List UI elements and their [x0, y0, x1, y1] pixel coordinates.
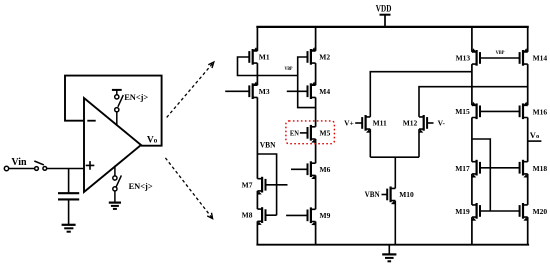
dashed arrow upper — [167, 62, 214, 117]
ground symbol center — [382, 245, 396, 262]
wire M13 M14 gate wire — [480, 57, 520, 59]
svg-text:EN<j>: EN<j> — [129, 181, 153, 191]
svg-text:M9: M9 — [320, 211, 331, 220]
wire M10 source to ground rail — [394, 201, 396, 245]
transistor M14 — [520, 48, 528, 65]
svg-text:M14: M14 — [533, 54, 548, 63]
transistor M20 — [520, 203, 528, 221]
wire M2 gate to VBP and down to source — [298, 57, 316, 108]
transistor M13 — [472, 48, 480, 65]
svg-text:M7: M7 — [242, 180, 253, 189]
capacitor C1 — [58, 169, 79, 225]
transistor M3 — [249, 82, 257, 99]
svg-text:VBP: VBP — [496, 50, 505, 56]
svg-text:EN<j>: EN<j> — [124, 92, 148, 102]
transistor M15 — [472, 102, 480, 119]
switch EN<j> bottom — [113, 166, 122, 203]
input terminal circle — [4, 166, 8, 170]
svg-text:M6: M6 — [320, 165, 331, 174]
op-amp U1 triangle — [84, 98, 141, 192]
svg-text:M4: M4 — [319, 87, 330, 96]
transistor M1 — [249, 47, 257, 64]
transistor M19 — [472, 203, 480, 221]
svg-text:M13: M13 — [456, 54, 471, 63]
wire M17 M18 gate wire — [480, 167, 520, 169]
ground rail bottom — [256, 244, 529, 246]
wire M12 source down — [418, 129, 420, 157]
transistor M5 — [308, 125, 316, 143]
wire column D (M14,M16,M18,M20) — [527, 27, 529, 245]
wire M8 gate lead — [265, 214, 276, 216]
svg-text:M15: M15 — [455, 107, 470, 116]
wire M12 gate lead — [427, 122, 434, 124]
svg-text:M3: M3 — [259, 87, 270, 96]
wire M4 gate lead — [287, 90, 308, 92]
transistor M11 — [362, 115, 370, 133]
transistor M8 — [257, 207, 265, 225]
svg-text:M2: M2 — [319, 53, 330, 62]
svg-text:M10: M10 — [399, 190, 414, 199]
transistor M10 — [387, 187, 395, 205]
VDD terminal bar — [380, 14, 391, 16]
VDD top rail — [256, 26, 529, 28]
red dashed enable box — [286, 121, 335, 144]
wire M1 diode loop and VBP net — [238, 57, 298, 76]
svg-text:M8: M8 — [242, 211, 253, 220]
svg-text:VBN: VBN — [365, 190, 380, 199]
ground under bottom switch — [109, 203, 121, 209]
svg-text:VBN: VBN — [260, 140, 276, 149]
svg-text:M1: M1 — [259, 53, 270, 62]
wire switch to op-amp plus input — [47, 168, 84, 170]
svg-text:V+: V+ — [344, 118, 354, 127]
ground under C1 — [62, 225, 76, 232]
wire Vin to switch — [9, 168, 35, 170]
transistor M9 — [308, 207, 316, 225]
wire M3 gate lead — [225, 90, 249, 92]
wire M15 M16 gate wire — [480, 110, 520, 112]
svg-text:Vin: Vin — [11, 156, 26, 168]
VDD stub wire — [384, 15, 386, 27]
wire M6 gate lead — [291, 168, 308, 170]
wire M19 M20 gate wire — [480, 210, 520, 212]
wire VBN node to M7 M8 gates — [257, 154, 276, 215]
wire M11 drain up and node A to M13 — [370, 72, 472, 117]
transistor M12 — [419, 115, 427, 133]
wire tail node — [370, 156, 419, 158]
svg-text:M19: M19 — [455, 207, 470, 216]
op-amp plus sign — [86, 161, 95, 170]
transistor M18 — [520, 160, 528, 178]
svg-text:Vo: Vo — [147, 136, 158, 146]
wire M7 gate lead — [265, 184, 287, 186]
wire M12 drain up and node B to M14 column — [419, 87, 528, 117]
svg-text:VDD: VDD — [376, 4, 392, 14]
wire column C (M13,M15,M17,M19) — [471, 27, 473, 245]
svg-text:V-: V- — [438, 119, 446, 128]
svg-text:M12: M12 — [403, 119, 418, 128]
transistor M6 — [308, 161, 316, 179]
svg-text:VBP: VBP — [285, 66, 293, 72]
wire tail to M10 — [394, 157, 396, 188]
svg-text:M17: M17 — [455, 164, 470, 173]
svg-text:M5: M5 — [320, 128, 331, 137]
wire Vo output stub — [528, 140, 542, 142]
wire M11 source down — [369, 129, 371, 157]
svg-text:M11: M11 — [373, 119, 387, 128]
transistor M16 — [520, 102, 528, 119]
op-amp minus sign — [87, 120, 95, 122]
svg-text:EN: EN — [290, 129, 299, 137]
svg-text:M18: M18 — [533, 164, 548, 173]
wire M9 gate lead — [286, 214, 308, 216]
transistor M7 — [257, 177, 265, 195]
transistor M2 — [308, 47, 316, 64]
svg-text:M16: M16 — [533, 107, 548, 116]
dashed arrow lower — [165, 158, 212, 219]
svg-text:Vo: Vo — [530, 130, 539, 140]
wire column B (M2,M4,M5,M6,M9) — [315, 27, 317, 245]
wire gate bias vertical right — [472, 139, 490, 211]
transistor M17 — [472, 160, 480, 178]
wire M10 gate lead — [382, 194, 388, 196]
wire M11 gate lead — [355, 122, 362, 124]
svg-text:M20: M20 — [533, 207, 548, 216]
feedback loop wire box — [65, 76, 162, 146]
switch EN<j> top (feedback) — [112, 90, 123, 126]
wire column A (M1,M3,M7,M8) — [256, 27, 258, 245]
transistor M4 — [308, 82, 316, 99]
switch S1 input — [34, 161, 46, 170]
wire M5 gate lead — [300, 132, 308, 134]
